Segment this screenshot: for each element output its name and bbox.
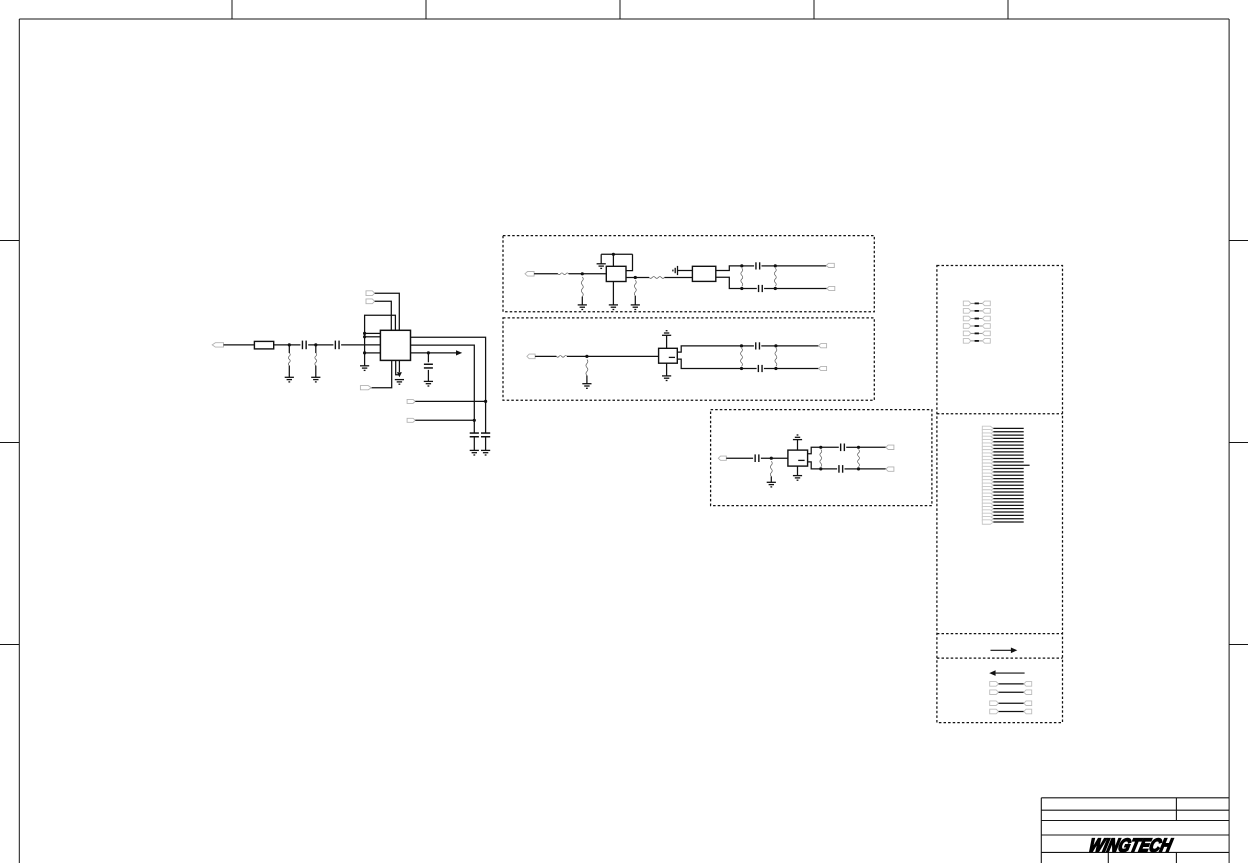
net jumper row 2 left port: [963, 309, 971, 314]
J1 pin 18: [982, 483, 993, 487]
net jumper row 2 link: [975, 310, 979, 312]
J1 pin 11: [982, 460, 993, 464]
capacitor C1: [301, 341, 303, 350]
wire P5 to node: [415, 400, 485, 402]
wire U1 left pin 1: [365, 332, 381, 334]
net jumper row 6 wire: [971, 340, 983, 342]
io pair 3 right port: [1024, 701, 1032, 706]
junction N6 minus: [774, 287, 777, 290]
wire F1 out: [626, 277, 649, 279]
J1 pin 13: [982, 466, 993, 470]
dashed block RX filter 3: [711, 410, 932, 506]
resistor R10 shunt pair: [775, 348, 777, 366]
net jumper row 5 link: [975, 333, 979, 335]
net jumper row 2 right port: [982, 309, 990, 314]
junction N9 plus: [774, 344, 777, 347]
J1 pin 4: [982, 436, 993, 440]
signal arrow left: [989, 670, 995, 676]
wire U1 left pin 2: [365, 336, 381, 338]
ground for R8: [582, 384, 591, 389]
net jumper row 5 right port: [982, 331, 990, 336]
wire to port P9: [775, 288, 827, 290]
junction F1 top: [612, 253, 615, 256]
J1 pin 24: [982, 503, 993, 507]
junction at U1 pin 1: [363, 332, 366, 335]
ground for R3: [311, 377, 320, 382]
inductor L1 series: [558, 273, 569, 275]
wire U1 bottom pin 2: [396, 360, 400, 374]
capacitor C12: [838, 465, 840, 473]
ground for C5: [481, 450, 490, 455]
node N2 junction: [314, 343, 317, 346]
wire P1 to R1: [224, 344, 255, 346]
port P13: [718, 456, 726, 460]
balun T1: [692, 266, 715, 281]
junction on pin C: [427, 351, 430, 354]
J1 pin 16: [982, 476, 993, 480]
dashed divider 1: [937, 413, 1063, 415]
arrow into ground: [397, 372, 402, 377]
port P6: [407, 418, 415, 422]
junction N12 plus: [857, 446, 860, 449]
net jumper row 1 wire: [971, 302, 983, 304]
port P3: [366, 299, 375, 304]
net jumper row 3 left port: [963, 316, 971, 321]
wire U2 bottom: [666, 363, 668, 376]
wire L2 to T1: [665, 277, 693, 279]
net jumper row 2 wire: [971, 310, 983, 312]
SAW filter F1: [606, 266, 626, 281]
wire P7 to L1: [534, 273, 558, 275]
J1 pin 9: [982, 453, 993, 457]
title block: [1041, 798, 1229, 863]
net jumper row 4 wire: [971, 325, 983, 327]
dashed block RX filter 1: [503, 236, 874, 312]
net jumper row 4 right port: [982, 324, 990, 329]
wire P10 to L3: [535, 355, 556, 357]
junction N9 minus: [774, 367, 777, 370]
J1 pin 10: [982, 456, 993, 460]
wire feedback loop U1: [365, 315, 396, 333]
capacitor C3 shunt: [427, 353, 429, 362]
power flag above U2: [662, 331, 671, 336]
port P9: [827, 286, 835, 290]
resistor R11 shunt: [770, 461, 772, 476]
J1 pin 8: [982, 450, 993, 454]
junction P5 node: [484, 400, 487, 403]
J1 pin 19: [982, 486, 993, 490]
wire to port P11: [776, 345, 819, 347]
junction P6 node: [473, 419, 476, 422]
wire N11 to C12: [821, 468, 837, 470]
junction N11 plus: [819, 446, 822, 449]
J1 pin 28: [982, 517, 993, 521]
wire P2 to U1 pin: [375, 293, 400, 330]
wire U1 left bias rail: [364, 333, 366, 365]
io pair 4 left port: [990, 709, 999, 714]
J1 pin 14: [982, 470, 993, 474]
io pair 1 right port: [1024, 682, 1032, 687]
capacitor C11: [840, 444, 842, 452]
wire R1 to C1: [274, 344, 301, 346]
J1 pin 7: [982, 446, 993, 450]
inductor L2 series: [649, 277, 664, 279]
junction N7: [585, 355, 588, 358]
junction N8 plus: [740, 344, 743, 347]
net jumper row 5 wire: [971, 332, 983, 334]
wire T1 out+: [716, 266, 742, 271]
net jumper row 6 link: [975, 340, 979, 342]
ground T1 left: [673, 266, 678, 275]
junction N5 minus: [740, 287, 743, 290]
junction N11 minus: [819, 467, 822, 470]
J1 pin 17: [982, 480, 993, 484]
port P10: [527, 354, 535, 359]
wire L3 to U2: [567, 355, 659, 357]
J1 pin 20: [982, 490, 993, 494]
junction N6 plus: [774, 264, 777, 267]
io pair 4 wire: [999, 711, 1024, 713]
logo WINGTECH: [1087, 835, 1175, 856]
capacitor C4 shunt: [470, 432, 479, 434]
junction N4: [634, 276, 637, 279]
J1 pin 21: [982, 493, 993, 497]
port P4: [360, 386, 371, 390]
wire U1 right pin B: [411, 345, 475, 433]
resistor R6 shunt pair: [741, 268, 743, 286]
wire C10 to U3: [761, 457, 788, 459]
wire C2 to U1: [341, 344, 380, 346]
wire U1 right pin C with output arrow: [411, 352, 457, 354]
net jumper row 3 link: [975, 318, 979, 320]
wire to port P8: [775, 265, 826, 267]
wire F1 bottom to ground: [612, 282, 614, 305]
node N1 junction: [288, 343, 291, 346]
net jumper row 4 left port: [963, 324, 971, 329]
J1 pin 3: [982, 433, 993, 437]
wire P13 to C10: [726, 457, 753, 459]
junction N8 minus: [740, 367, 743, 370]
net jumper row 1 link: [975, 303, 979, 305]
J1 pin 15: [982, 473, 993, 477]
wire C7 to N6: [764, 288, 775, 290]
io pair 2 right port: [1024, 690, 1032, 695]
net jumper row 6 right port: [982, 339, 990, 344]
signal arrow right: [991, 649, 1012, 651]
wire N5 to C7: [742, 288, 757, 290]
net jumper row 1 left port: [963, 301, 971, 306]
port P11: [819, 344, 827, 348]
wire U1 bottom pin 3 to ground: [398, 360, 400, 372]
net jumper row 5 left port: [963, 331, 971, 336]
wire U2 top: [666, 335, 668, 348]
port P5: [407, 399, 415, 403]
ground for R11: [767, 482, 776, 487]
ground for C4: [470, 450, 479, 455]
io pair 1 left port: [990, 682, 999, 687]
io pair 2 wire: [999, 691, 1024, 693]
net jumper row 1 right port: [982, 301, 990, 306]
wire U3 bottom: [797, 466, 799, 476]
port P7: [525, 272, 534, 277]
resistor R2 shunt: [288, 345, 290, 353]
net jumper row 3 right port: [982, 316, 990, 321]
capacitor C5 shunt: [481, 432, 490, 434]
resistor R9 shunt pair: [741, 348, 743, 366]
wire C6 to N6: [762, 265, 776, 267]
IC U1: [380, 330, 410, 360]
port P2: [366, 291, 375, 296]
dashed block control nets: [937, 266, 1063, 723]
wire to port P15: [859, 468, 886, 470]
resistor R7 shunt pair: [774, 268, 776, 286]
J1 pin 23: [982, 500, 993, 504]
resistor R8 shunt: [586, 360, 588, 376]
wire C11 to N12: [846, 446, 858, 448]
io pair 1 wire: [999, 683, 1024, 685]
J1 pin 5: [982, 440, 993, 444]
resistor R3 shunt: [315, 345, 317, 353]
port P14: [886, 445, 894, 449]
io pair 2 left port: [990, 690, 999, 695]
io pair 3 left port: [990, 701, 999, 706]
capacitor C2: [334, 341, 336, 350]
ground for R4: [578, 305, 587, 310]
port P15: [886, 467, 894, 471]
wire N11 to C11: [821, 446, 839, 448]
ground F1 top-left: [597, 264, 606, 269]
wire U1 right pin A: [411, 337, 486, 433]
ground below U1: [395, 380, 404, 385]
net jumper row 4 link: [975, 325, 979, 327]
wire U1 bottom pin 1 to P4: [371, 360, 391, 387]
power flag above U3: [793, 435, 802, 440]
U3 polarity mark: [798, 459, 804, 461]
wire U3 out+: [808, 447, 821, 454]
U2 polarity mark: [669, 356, 675, 358]
ground for C3: [424, 381, 433, 386]
io pair 3 wire: [999, 702, 1024, 704]
ground below U2: [662, 376, 671, 381]
resistor R4 shunt: [581, 277, 583, 297]
io pair 4 right port: [1024, 709, 1032, 714]
filter U2: [659, 348, 678, 363]
junction N12 minus: [857, 467, 860, 470]
dashed divider 2: [937, 633, 1063, 635]
dashed block RX filter 2: [503, 318, 874, 400]
J1 pin 1: [982, 426, 993, 430]
wire to port P12: [776, 368, 819, 370]
wire C9 to N9: [764, 368, 776, 370]
wire to port P14: [859, 446, 886, 448]
inductor L3 series: [556, 356, 567, 358]
wire T1 out-: [716, 277, 742, 288]
J1 pin 6: [982, 443, 993, 447]
resistor R5 shunt: [634, 280, 636, 296]
ground below U3: [793, 476, 802, 481]
resistor R1: [254, 341, 273, 349]
ground left of U1: [360, 366, 369, 371]
wire N5 to C6: [742, 265, 754, 267]
capacitor C9: [757, 365, 759, 372]
ground below F1: [609, 305, 618, 310]
junction N3: [581, 272, 584, 275]
resistor R13 shunt pair: [858, 450, 860, 467]
port P12: [819, 366, 827, 370]
J1 pin 2: [982, 430, 993, 434]
resistor R12 shunt pair: [820, 450, 822, 467]
port P1 RF input: [212, 343, 223, 347]
wire C1 to C2: [308, 344, 333, 346]
wire C12 to N12: [845, 468, 859, 470]
junction at U1 pin 4: [363, 351, 366, 354]
wire F1 top bypass: [612, 254, 614, 266]
wire P3 to U1 pin: [375, 301, 392, 330]
dashed divider 3: [937, 657, 1063, 659]
J1 pin 27: [982, 513, 993, 517]
J1 pin 22: [982, 496, 993, 500]
wire P6 to node: [415, 419, 474, 421]
port P8: [826, 263, 834, 267]
wire N8 to C9: [742, 368, 757, 370]
capacitor C8: [755, 342, 757, 349]
net jumper row 3 wire: [971, 318, 983, 320]
capacitor C10: [754, 454, 756, 462]
wire U3 top: [797, 440, 799, 451]
wire U2 out+: [677, 346, 741, 352]
wire L1 to F1: [569, 273, 607, 275]
capacitor C7: [758, 285, 760, 292]
junction at U1 pin 2: [363, 335, 366, 338]
filter U3: [788, 450, 808, 466]
wire U1 left pin 4: [365, 352, 381, 354]
J1 pin 12: [982, 463, 993, 467]
wire ground to T1: [678, 270, 693, 272]
ground for R2: [285, 377, 294, 382]
wire U2 out-: [677, 359, 741, 368]
J1 pin 29: [982, 520, 993, 524]
junction N10: [770, 457, 773, 460]
wire U3 out-: [808, 462, 821, 469]
net jumper row 6 left port: [963, 339, 971, 344]
J1 pin 25: [982, 506, 993, 510]
capacitor C6: [755, 262, 757, 269]
svg-text:WINGTECH: WINGTECH: [1087, 835, 1175, 856]
wire N8 to C8: [742, 345, 754, 347]
ground for R5: [631, 305, 640, 310]
junction N5 plus: [740, 264, 743, 267]
wire C8 to N9: [761, 345, 776, 347]
J1 pin 26: [982, 510, 993, 514]
